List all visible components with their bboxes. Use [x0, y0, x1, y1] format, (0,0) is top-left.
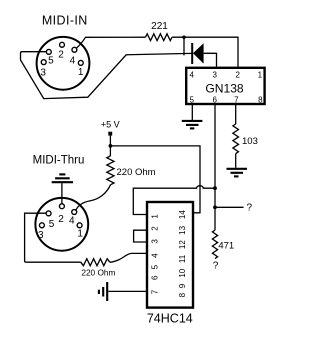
ic U2 74HC14 body [147, 202, 193, 308]
svg-text:13: 13 [178, 225, 187, 234]
svg-text:5: 5 [48, 56, 54, 67]
wire U2 pin 4 to resistor 220 Ohm to J2 pin 5 [110, 253, 147, 262]
wire node C to net ? [215, 206, 244, 208]
resistor 221 [146, 34, 173, 41]
svg-text:5: 5 [150, 264, 159, 269]
wire resistor 221 to U1 pin 2 [172, 37, 238, 67]
connector J2 MIDI-Thru body [35, 198, 88, 251]
svg-text:?: ? [213, 261, 219, 272]
wire +5V down to resistor 220 Ohm [109, 136, 111, 156]
resistor R5 220 Ohm horizontal [81, 259, 110, 266]
svg-text:5: 5 [49, 219, 55, 230]
svg-text:1: 1 [258, 71, 263, 80]
wire J1 pin4 to resistor 221 [76, 37, 145, 48]
ground left of U2 pin 7 (rotated) [99, 282, 107, 301]
junction node A [182, 36, 185, 39]
svg-text:2: 2 [58, 214, 64, 225]
wire U1 pin 6 down to resistor 471 [214, 104, 216, 230]
ground below U1 pin 5 [182, 121, 203, 128]
connector J1 MIDI-IN body [37, 37, 90, 90]
svg-text:GN138: GN138 [205, 81, 244, 95]
wire +5V branch to U2 pin 14 [110, 146, 200, 213]
J1 pin 5 [46, 49, 51, 54]
J2 pin 3 [39, 223, 44, 228]
svg-text:6: 6 [150, 275, 159, 280]
resistor R3 220 Ohm vertical [107, 156, 114, 185]
power +5V terminal square [108, 132, 112, 136]
svg-text:103: 103 [242, 136, 258, 147]
svg-text:4: 4 [70, 56, 76, 67]
J1 pin 3 [41, 60, 46, 65]
svg-text:3: 3 [38, 230, 44, 241]
op-amp U1 GN138 optocoupler body [186, 68, 264, 104]
svg-text:7: 7 [234, 95, 239, 104]
svg-text:4: 4 [150, 253, 159, 258]
wire resistor 103 to ground [235, 154, 237, 168]
wire jumper U2 pin 2 to pin 3 [134, 230, 147, 242]
J2 pin 5 [46, 211, 51, 216]
svg-text:2: 2 [235, 71, 240, 80]
svg-text:221: 221 [151, 21, 168, 32]
svg-text:1: 1 [77, 229, 83, 240]
svg-text:9: 9 [178, 283, 187, 288]
wire node A down to DIN5 net [183, 36, 185, 56]
ground above J2 pin 2 (inverted) [52, 174, 73, 182]
ground below resistor 103 [227, 169, 248, 177]
svg-text:4: 4 [69, 216, 75, 227]
svg-text:MIDI-IN: MIDI-IN [42, 13, 88, 27]
diode D1 body [193, 43, 204, 63]
J2 pin 2 [59, 204, 64, 209]
svg-text:1: 1 [150, 214, 159, 219]
svg-text:12: 12 [178, 240, 187, 249]
J1 pin 4 [72, 47, 77, 52]
J2 pin 4 [72, 210, 77, 215]
wire U1 pin 7 to resistor 103 [235, 104, 237, 124]
svg-text:8: 8 [178, 292, 187, 297]
resistor R2 103 [233, 124, 239, 154]
svg-text:471: 471 [218, 241, 234, 252]
svg-text:7: 7 [150, 289, 159, 294]
svg-text:3: 3 [150, 239, 159, 244]
J1 pin 1 [78, 60, 83, 65]
wire U1 pin6 node B to U2 pin 1 with hop [133, 186, 215, 215]
junction node B on pin6 net [213, 186, 217, 190]
svg-text:MIDI-Thru: MIDI-Thru [33, 155, 85, 167]
svg-text:220 Ohm: 220 Ohm [81, 267, 115, 277]
diode D1 cathode bar [191, 43, 193, 64]
svg-text:11: 11 [178, 254, 187, 263]
wire U2 pin 7 to ground [108, 290, 147, 292]
wire ground to J2 pin 2 [61, 183, 63, 204]
J2 pin 1 [77, 223, 82, 228]
svg-text:5: 5 [189, 95, 194, 104]
svg-text:3: 3 [212, 71, 217, 80]
wire J1 pin5 around connector to diode cathode [21, 52, 192, 99]
svg-text:8: 8 [258, 95, 263, 104]
svg-text:220 Ohm: 220 Ohm [117, 167, 156, 178]
J1 pin 2 [60, 42, 65, 47]
svg-text:3: 3 [40, 67, 46, 78]
wire U1 pin 5 to ground [191, 104, 193, 120]
svg-text:2: 2 [58, 50, 64, 61]
svg-text:14: 14 [178, 210, 187, 219]
svg-text:2: 2 [150, 226, 159, 231]
svg-text:+5 V: +5 V [101, 120, 120, 130]
junction node C on pin6 net [213, 205, 217, 209]
wire resistor 220 Ohm to J2 pin 4 [76, 185, 111, 211]
svg-text:?: ? [247, 203, 253, 214]
resistor R4 471 [212, 230, 217, 258]
wire diode D1 anode to U1 pin 3 [204, 53, 217, 67]
wire resistor to J2 pin 5 [25, 213, 81, 262]
svg-text:4: 4 [189, 71, 194, 80]
svg-text:10: 10 [178, 268, 187, 277]
svg-text:6: 6 [212, 95, 217, 104]
svg-text:74HC14: 74HC14 [147, 311, 193, 325]
junction node D on +5V net [109, 144, 113, 148]
svg-text:1: 1 [78, 67, 84, 78]
